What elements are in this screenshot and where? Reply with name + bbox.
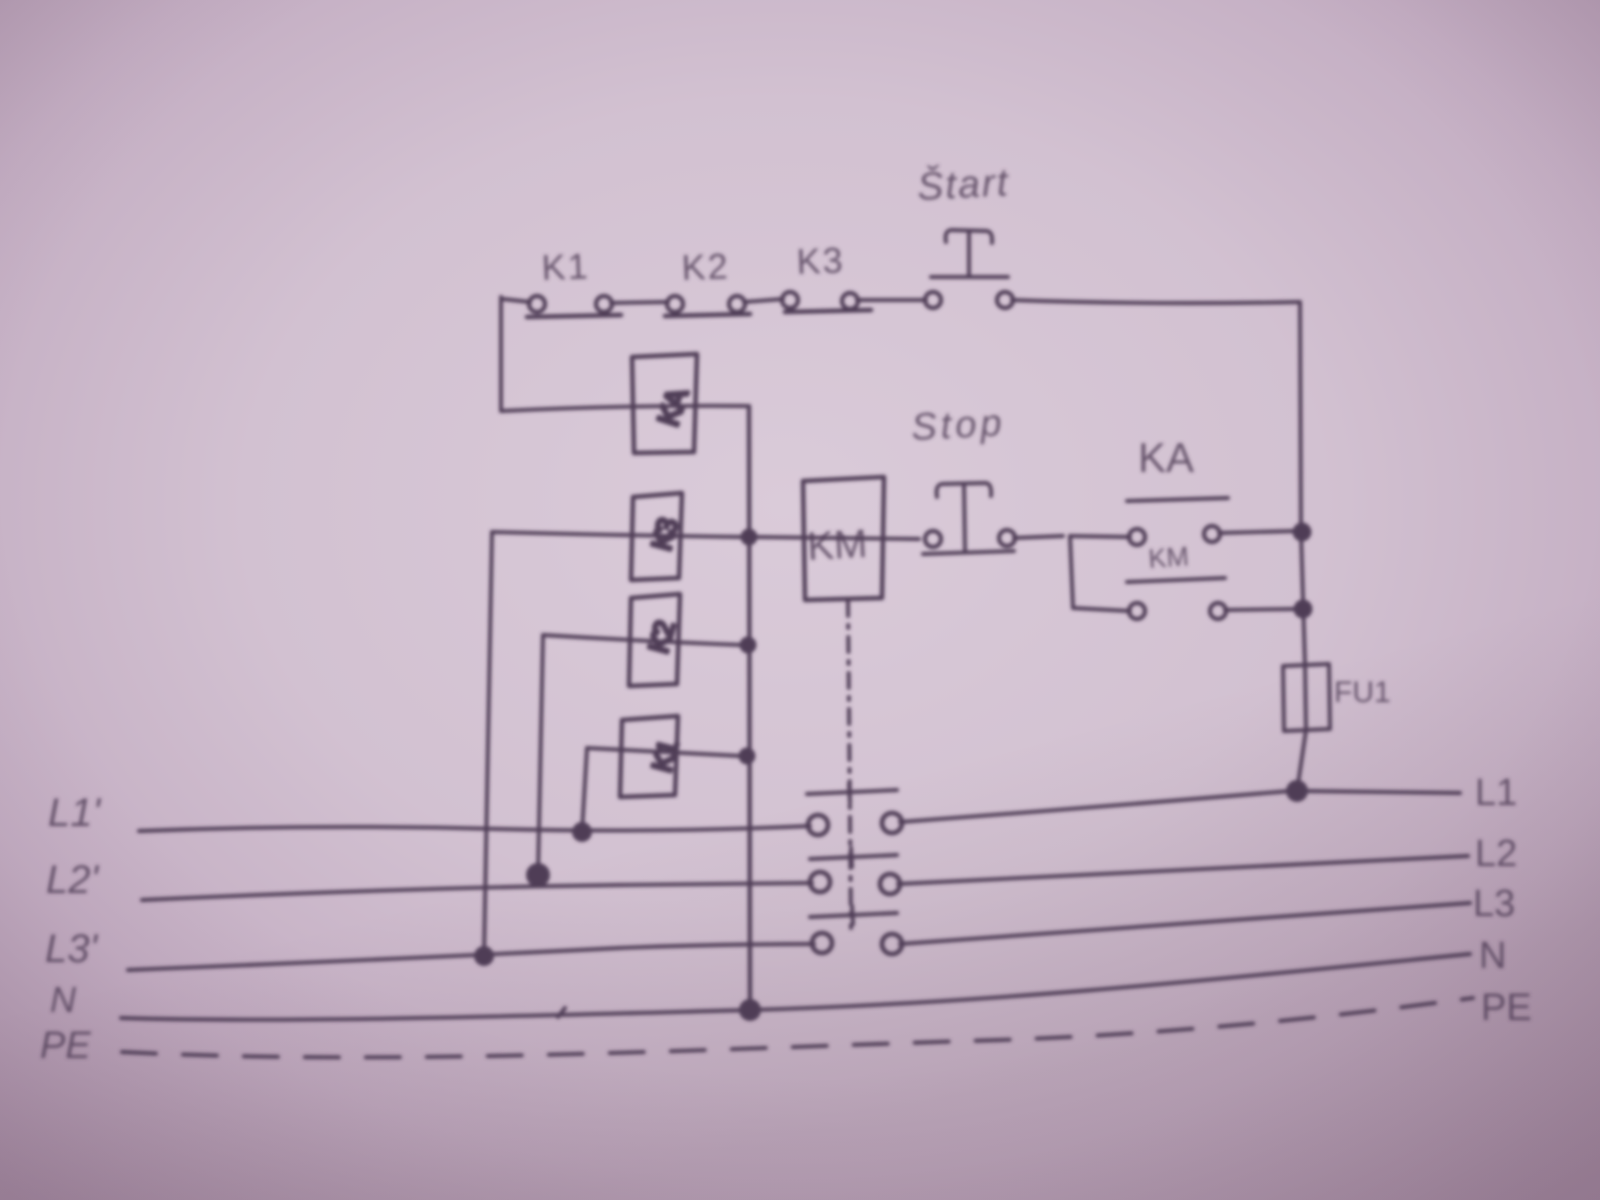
wire: KA contact to right bus	[1219, 531, 1295, 533]
wire: main vertical bus	[749, 406, 750, 1010]
node: right bus KM junction	[1296, 602, 1311, 617]
svg-text:L3: L3	[1473, 883, 1515, 925]
svg-text:PE: PE	[40, 1025, 91, 1067]
contactor main contact KM phase 3	[810, 913, 902, 954]
wire: line L3 right	[900, 903, 1470, 944]
wire: N line pen notch	[558, 1008, 565, 1017]
wire: top rail right	[1012, 300, 1300, 303]
contact KA (NO)	[1127, 498, 1228, 545]
node: L1-bus junction	[1288, 782, 1306, 800]
wire: K2 rung left vertical	[538, 635, 543, 875]
contactor main contact KM phase 2	[810, 855, 900, 894]
relay coil KA	[632, 354, 697, 453]
relay coil K2	[629, 594, 681, 686]
contactor coil KM	[803, 477, 884, 600]
wire K1-K2	[611, 302, 668, 303]
svg-text:K1: K1	[541, 245, 590, 288]
wire: K1 coil feed (passes through coil)	[587, 748, 741, 756]
wire: junction to KA contact	[1070, 536, 1130, 537]
wire: fuse to L1	[1297, 730, 1306, 791]
wire: KA coil feed (passes through coil)	[501, 406, 746, 411]
wire: right bus upper	[1300, 302, 1301, 532]
svg-text:N: N	[1479, 935, 1506, 977]
contact K1 (NO bridge contact)	[527, 296, 621, 317]
wire: line L3' left	[128, 944, 814, 970]
svg-text:L2': L2'	[46, 858, 99, 902]
relay coil K3	[631, 493, 684, 580]
svg-text:KM: KM	[806, 522, 868, 569]
node: right bus KA junction	[1295, 525, 1310, 540]
wire: top-left corner drop	[499, 297, 503, 411]
linkage tick phase 2	[851, 848, 852, 867]
svg-text:K2: K2	[681, 245, 730, 288]
wire: right bus to fuse	[1301, 532, 1305, 665]
wire: junction drop	[1070, 536, 1073, 608]
wire: line N	[121, 954, 1470, 1020]
svg-text:Stop: Stop	[910, 402, 1006, 449]
svg-text:N: N	[50, 979, 77, 1020]
wire: junction to KM contact	[1073, 608, 1130, 611]
wire: line L2 right	[898, 856, 1468, 884]
node: bus-K3/KM junction	[743, 531, 756, 544]
contact K2 (NO bridge contact)	[665, 296, 750, 316]
wire: KM contact to right bus	[1225, 609, 1296, 610]
node: L2' K2 tap	[528, 865, 548, 885]
node: bus-K2 junction	[742, 639, 755, 652]
contact KM auxiliary (NO)	[1127, 578, 1226, 619]
svg-text:K3: K3	[796, 239, 845, 282]
fuse FU1	[1283, 664, 1330, 731]
wire K2-K3	[744, 299, 783, 302]
svg-text:PE: PE	[1481, 987, 1532, 1029]
svg-text:KA: KA	[1138, 434, 1194, 481]
svg-text:L2: L2	[1475, 833, 1517, 875]
svg-text:L1: L1	[1475, 772, 1517, 814]
contact K3 (NO bridge contact)	[782, 292, 871, 312]
linkage tick phase 1	[849, 784, 850, 802]
wire: bus to KM coil (passes through coil)	[756, 537, 919, 539]
svg-text:L1': L1'	[48, 791, 101, 835]
pushbutton SB1 Start (NO)	[925, 230, 1013, 308]
wire: K1 rung left vertical	[582, 748, 587, 832]
relay coil K1	[620, 716, 684, 797]
wire: line L2' left	[142, 883, 812, 900]
node: L3' K3 tap	[476, 948, 492, 964]
node: L1' K1 tap	[574, 824, 590, 840]
contactor main contact KM phase 1	[807, 790, 902, 835]
wire: top rail to K1	[503, 299, 530, 302]
wire: K2 coil feed (passes through coil)	[543, 635, 742, 645]
wire: line PE (dashed)	[122, 998, 1473, 1057]
svg-text:L3': L3'	[45, 927, 98, 971]
wire: K3 rung left vertical	[484, 532, 492, 956]
svg-text:Štart: Štart	[916, 160, 1011, 209]
wire K3-Start	[857, 298, 926, 302]
svg-text:KM: KM	[1147, 541, 1189, 574]
wire: Stop to junction	[1014, 536, 1063, 538]
pushbutton SB2 Stop (NC)	[923, 483, 1015, 554]
linkage tick phase 3	[852, 906, 853, 924]
wire: line L1' left	[139, 826, 810, 831]
node: N-bus junction	[741, 1001, 759, 1019]
wire: K3 coil feed (passes through coil)	[492, 532, 743, 537]
node: bus-K1 junction	[741, 750, 754, 763]
labels (slightly less blurred)	[40, 160, 1532, 1067]
wire: line L1 right	[900, 791, 1290, 822]
mechanical linkage KM (dash-dot)	[848, 601, 851, 928]
svg-text:FU1: FU1	[1334, 676, 1391, 709]
